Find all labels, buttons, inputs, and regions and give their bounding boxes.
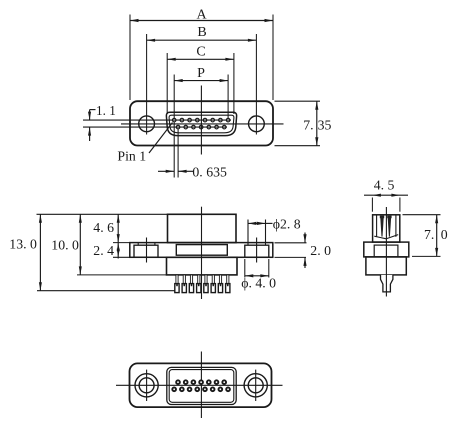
end view shell bottom V lines	[374, 235, 398, 239]
side view right ear centerline	[256, 238, 258, 263]
Pin 1 label and leader	[117, 123, 172, 164]
side view mounting flange	[130, 243, 273, 258]
front view horizontal centerline	[121, 123, 284, 125]
front view shell body	[130, 101, 273, 145]
dimension B (mounting hole spacing)	[147, 25, 257, 134]
front view bottom pin row (7 pins)	[176, 125, 226, 129]
svg-text:10. 0: 10. 0	[51, 237, 79, 252]
front view D-shell inner outline	[169, 115, 234, 133]
side view vertical centerline	[201, 207, 203, 299]
rear view left hole crosshair	[146, 370, 148, 401]
side view right ear hole lines	[248, 220, 266, 246]
svg-text:0. 635: 0. 635	[192, 165, 227, 180]
dimension 10.0	[51, 214, 82, 275]
end view top shell block	[373, 215, 400, 242]
rear view bottom solder cup row (8)	[172, 387, 230, 391]
rear view insulator outer outline	[167, 367, 236, 404]
extension tick flange top left	[113, 242, 130, 244]
svg-text:35: 35	[318, 117, 332, 132]
front view D-shell outer outline	[166, 112, 236, 135]
extension tick flange bottom left	[113, 256, 130, 258]
end view shell inner walls	[377, 216, 396, 237]
front view vertical centerline	[200, 86, 202, 155]
front view top pin-row line	[83, 119, 231, 121]
side view solder pins (8 sockets)	[175, 275, 230, 293]
front view bottom pin-row line	[83, 126, 227, 128]
extension line rear block bottom	[77, 274, 167, 276]
extension line pins bottom	[37, 290, 175, 292]
svg-text:ϕ2. 8: ϕ2. 8	[273, 216, 301, 231]
end view lower block	[366, 257, 406, 275]
front view top pin row (8 pins)	[172, 118, 230, 122]
side view flange window	[176, 245, 227, 256]
svg-text:B: B	[197, 25, 206, 40]
rear view horizontal centerline	[116, 384, 283, 386]
svg-text:ϕ. 4. 0: ϕ. 4. 0	[241, 275, 276, 290]
front view left mounting hole	[139, 116, 155, 132]
side view housing block	[168, 214, 237, 242]
end view vertical centerline	[385, 207, 387, 297]
side view rear insulator block	[167, 257, 238, 275]
dimension 2.0 (flange thickness)	[275, 233, 332, 269]
rear view insulator inner outline	[169, 370, 234, 403]
svg-text:Pin 1: Pin 1	[117, 148, 146, 163]
dimension 2.4	[93, 243, 120, 259]
side view left ear hole lines	[138, 243, 155, 246]
dimension P (pin span)	[174, 66, 228, 119]
side view right ear boss	[245, 245, 269, 257]
dimension 13.0	[9, 214, 42, 290]
extension line housing top	[37, 213, 168, 215]
rear view top solder cup row (7)	[176, 380, 226, 384]
svg-text:7.: 7.	[303, 117, 313, 132]
dimension 1.1 (row offset)	[88, 103, 116, 141]
rear view right hole crosshair	[255, 370, 257, 401]
rear view vertical centerline	[200, 352, 202, 419]
svg-text:13. 0: 13. 0	[9, 237, 37, 252]
end view center pin	[381, 275, 393, 292]
dimension C (shell width)	[167, 45, 234, 114]
svg-text:2. 0: 2. 0	[310, 243, 331, 258]
rear view right mounting hole	[244, 374, 267, 397]
dimension A (overall width)	[130, 7, 273, 100]
side view left ear centerline	[146, 238, 148, 263]
svg-text:A: A	[196, 7, 207, 22]
end view contact pins (hatched)	[380, 216, 392, 237]
rear view shell body	[130, 363, 272, 407]
dimension 4.5	[364, 177, 408, 211]
svg-text:4. 6: 4. 6	[93, 220, 114, 235]
svg-text:2. 4: 2. 4	[93, 243, 114, 258]
svg-text:1. 1: 1. 1	[96, 103, 116, 118]
end view rear block behind flange	[374, 245, 398, 257]
dimension phi 4.0	[241, 259, 276, 290]
dimension 7.35 (height)	[275, 101, 332, 146]
dimension phi 2.8	[248, 216, 301, 231]
dimension 0.635 (row stagger)	[158, 123, 227, 180]
rear view left mounting hole	[135, 374, 158, 397]
dimension 4.6	[93, 214, 120, 242]
side view left ear boss	[134, 245, 158, 257]
svg-text:0: 0	[441, 227, 448, 242]
end view flange	[364, 242, 409, 257]
svg-text:4. 5: 4. 5	[374, 177, 395, 192]
front view right mounting hole	[249, 116, 265, 132]
svg-text:C: C	[196, 45, 205, 60]
svg-text:7.: 7.	[424, 227, 434, 242]
dimension 7.0	[403, 215, 448, 257]
svg-text:P: P	[197, 66, 205, 81]
